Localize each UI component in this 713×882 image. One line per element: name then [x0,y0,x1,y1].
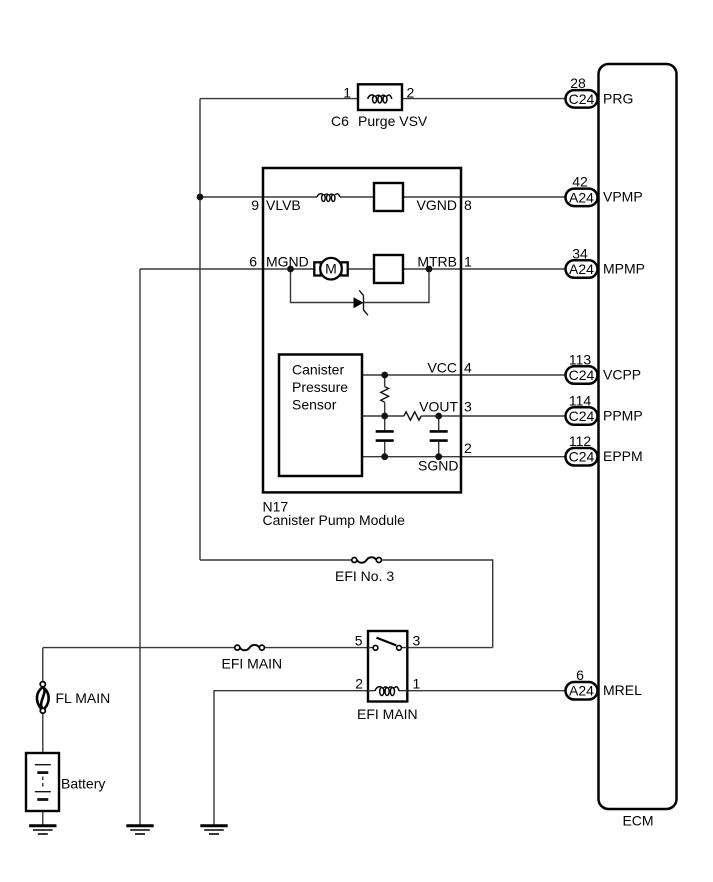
svg-text:28: 28 [570,75,586,91]
svg-text:MTRB: MTRB [417,254,457,270]
svg-text:C24: C24 [569,367,595,383]
svg-text:A24: A24 [569,189,594,205]
svg-text:VPMP: VPMP [603,188,643,204]
svg-text:ECM: ECM [622,813,653,829]
svg-text:C24: C24 [569,91,595,107]
svg-text:FL MAIN: FL MAIN [56,690,111,706]
svg-text:114: 114 [569,393,592,409]
svg-text:EPPM: EPPM [603,448,643,464]
svg-text:SGND: SGND [418,458,458,474]
svg-text:PPMP: PPMP [603,407,643,423]
svg-text:2: 2 [355,676,363,692]
svg-text:EFI MAIN: EFI MAIN [357,706,418,722]
svg-text:MGND: MGND [266,254,309,270]
svg-text:Purge VSV: Purge VSV [358,113,428,129]
svg-text:3: 3 [464,399,472,415]
svg-text:1: 1 [464,254,472,270]
svg-text:4: 4 [464,360,472,376]
svg-text:1: 1 [343,85,351,101]
svg-text:C6: C6 [331,113,349,129]
svg-text:5: 5 [355,633,363,649]
svg-text:A24: A24 [569,261,594,277]
svg-text:6: 6 [576,667,584,683]
svg-text:113: 113 [569,352,592,368]
svg-text:2: 2 [407,85,415,101]
svg-text:MPMP: MPMP [603,260,645,276]
svg-text:Battery: Battery [61,776,105,792]
svg-text:Canister Pump Module: Canister Pump Module [263,512,406,528]
svg-text:EFI MAIN: EFI MAIN [222,656,283,672]
svg-text:112: 112 [569,433,592,449]
svg-text:1: 1 [413,676,421,692]
svg-text:Sensor: Sensor [292,397,337,413]
svg-text:C24: C24 [569,449,595,465]
svg-text:VLVB: VLVB [266,197,301,213]
svg-text:C24: C24 [569,408,595,424]
svg-text:VOUT: VOUT [419,399,458,415]
svg-text:A24: A24 [569,683,594,699]
svg-text:3: 3 [413,633,421,649]
svg-text:Canister: Canister [292,362,344,378]
svg-text:34: 34 [572,246,588,262]
svg-text:VCC: VCC [427,360,457,376]
svg-text:42: 42 [572,174,588,190]
svg-text:8: 8 [464,197,472,213]
svg-text:Pressure: Pressure [292,379,348,395]
svg-text:VCPP: VCPP [603,366,641,382]
svg-text:MREL: MREL [603,682,642,698]
svg-text:VGND: VGND [417,197,457,213]
svg-text:6: 6 [249,254,257,270]
svg-text:PRG: PRG [603,90,633,106]
svg-text:9: 9 [251,197,259,213]
svg-text:EFI No. 3: EFI No. 3 [335,568,394,584]
svg-text:2: 2 [464,440,472,456]
svg-text:M: M [325,261,337,277]
